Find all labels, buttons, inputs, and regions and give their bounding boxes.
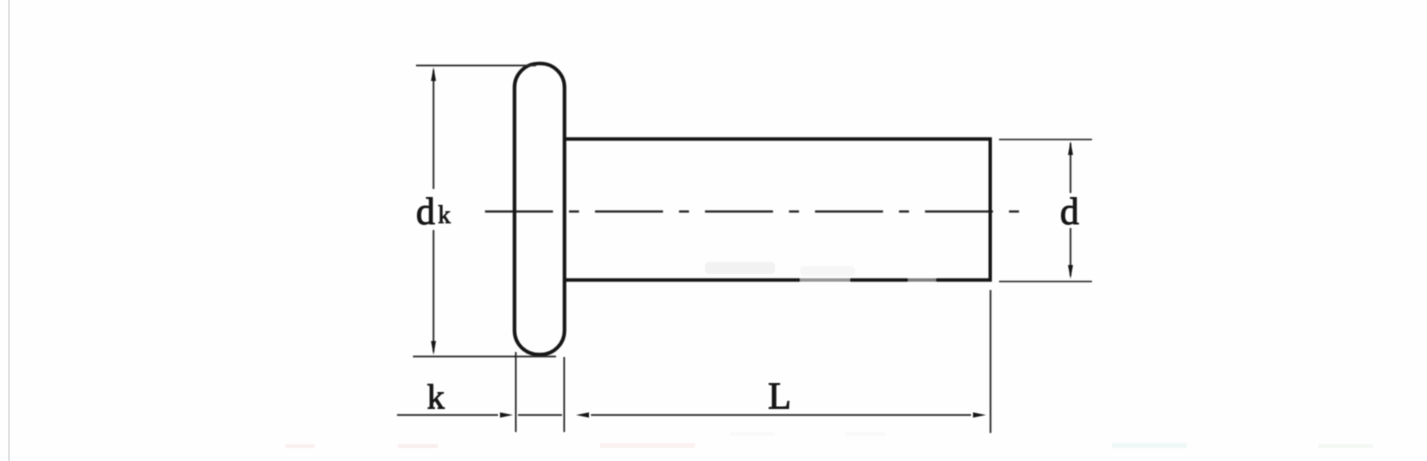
svg-text:k: k xyxy=(438,202,451,229)
k dimension line xyxy=(397,414,498,416)
k dimension line middle segment xyxy=(518,414,562,416)
watermark smudge over shank bottom line xyxy=(705,262,936,284)
dk extension line bottom xyxy=(413,356,556,358)
dk dimension line upper segment xyxy=(433,70,435,189)
k extension line right xyxy=(563,357,565,432)
d extension line bottom xyxy=(999,281,1092,283)
dk arrow up xyxy=(431,67,436,81)
svg-text:k: k xyxy=(427,378,445,417)
faint left page border xyxy=(8,0,10,461)
svg-text:d: d xyxy=(416,191,435,233)
L extension line right xyxy=(990,290,992,433)
shank (cylindrical body) xyxy=(566,139,990,280)
d arrow up xyxy=(1068,141,1073,155)
faint bottom crop artifacts xyxy=(285,432,1373,448)
d dimension line upper segment xyxy=(1070,143,1072,193)
svg-text:d: d xyxy=(1060,191,1079,233)
dk extension line top xyxy=(416,65,536,67)
d dimension line lower segment xyxy=(1070,228,1072,276)
dk arrow down xyxy=(431,341,436,355)
L arrow left xyxy=(576,412,589,417)
dk dimension line lower segment xyxy=(433,230,435,352)
d extension line top xyxy=(999,139,1092,141)
L dimension line xyxy=(591,414,971,416)
rivet head outline xyxy=(515,64,565,355)
k arrow right xyxy=(500,412,513,417)
L arrow right xyxy=(973,412,986,417)
svg-text:L: L xyxy=(768,376,791,418)
d arrow down xyxy=(1068,265,1073,279)
centerline (dash-dot axis) xyxy=(485,210,1019,212)
k extension line left xyxy=(515,352,517,432)
